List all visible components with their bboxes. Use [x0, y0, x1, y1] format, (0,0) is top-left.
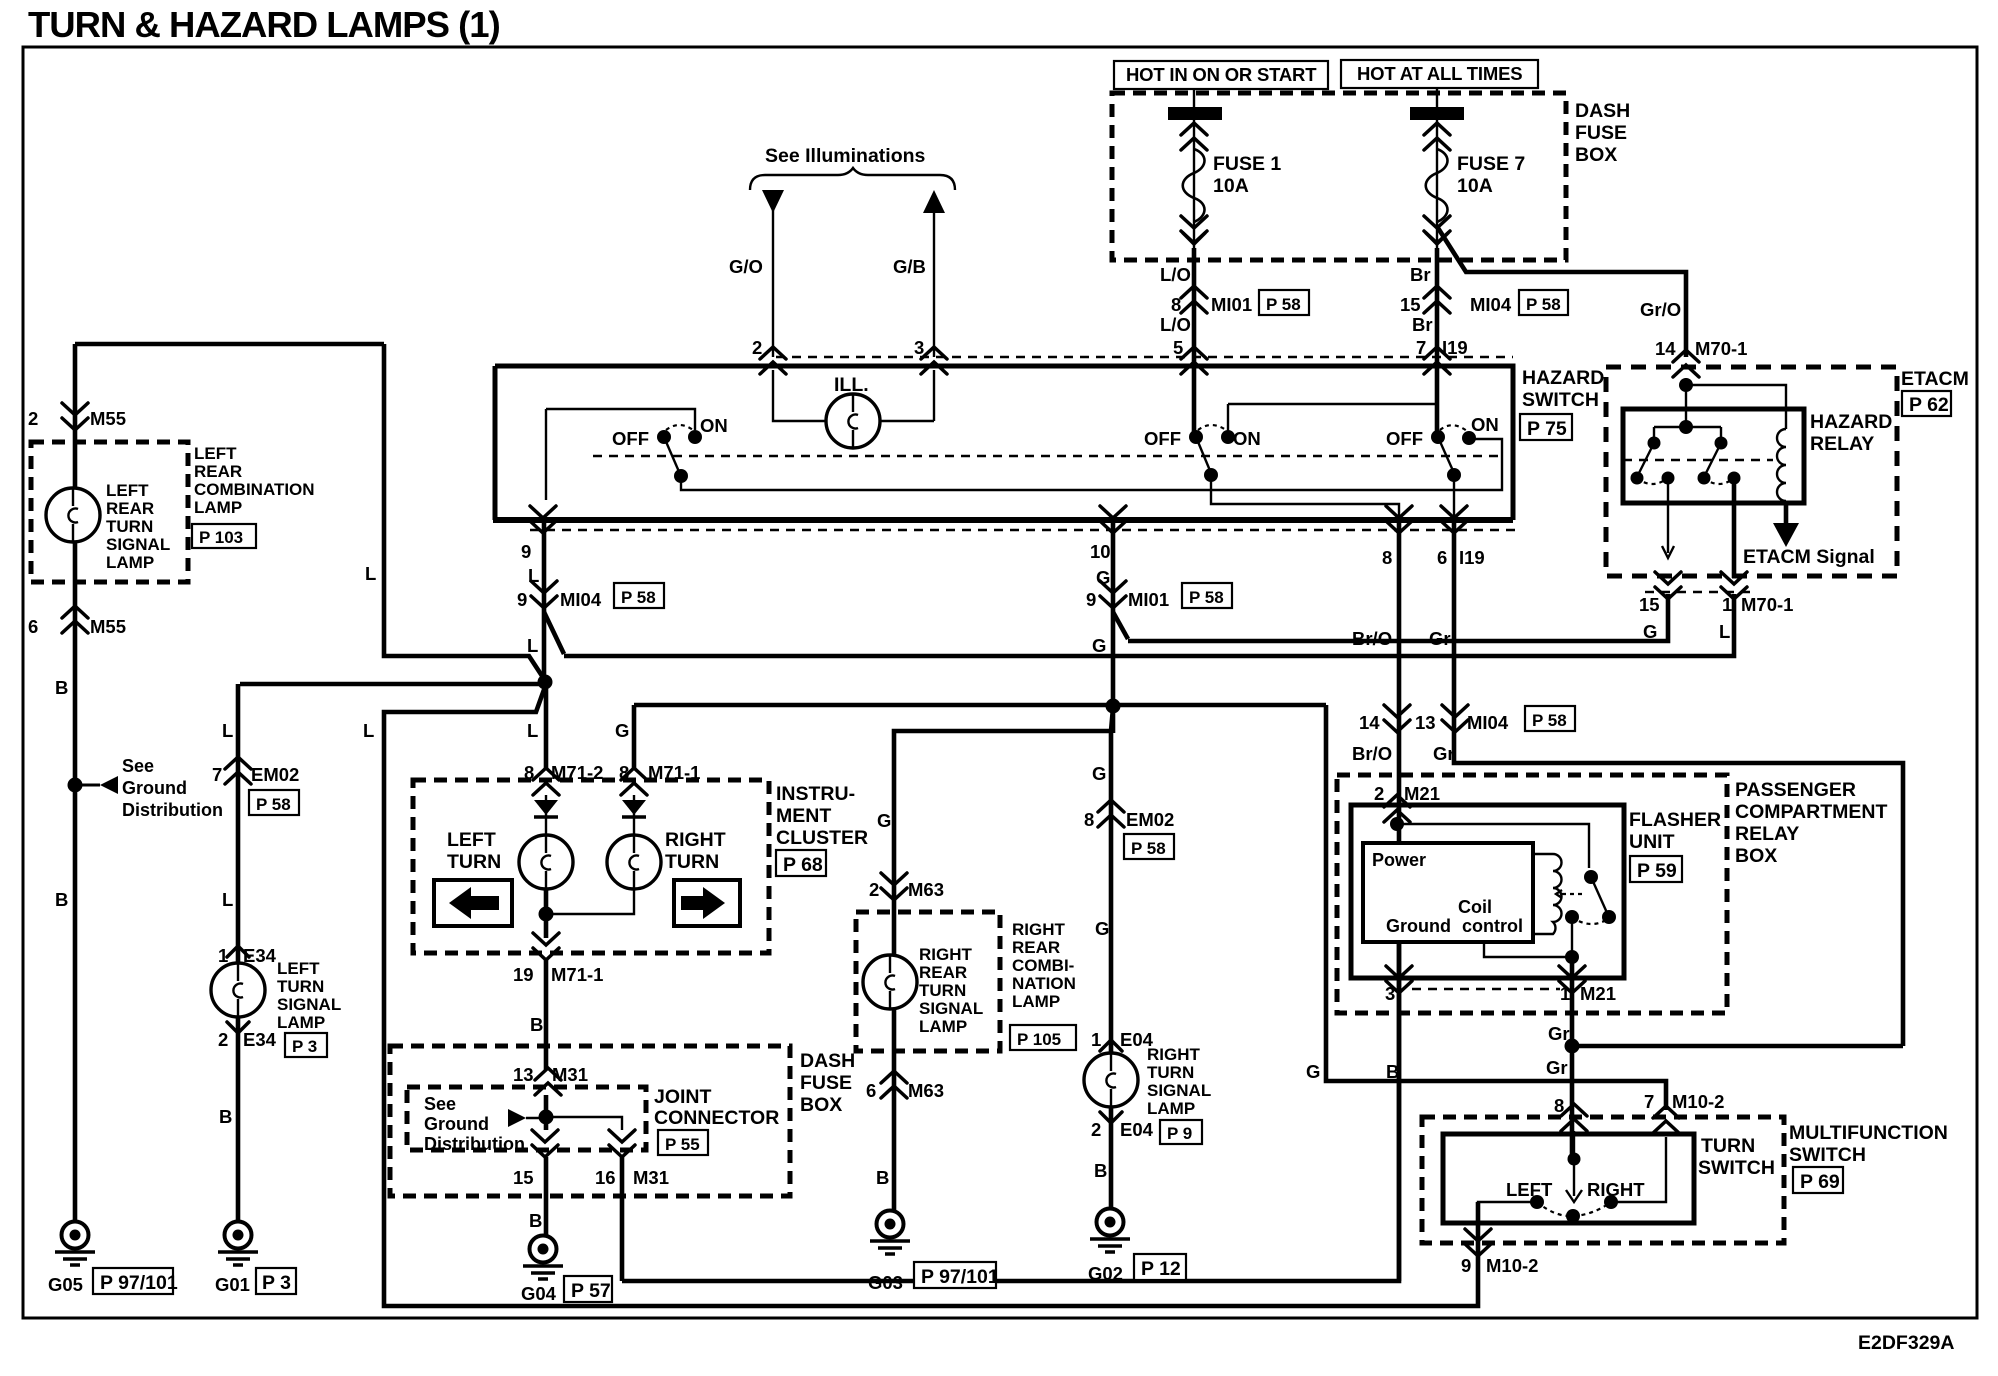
- svg-text:G05: G05: [48, 1274, 83, 1295]
- svg-text:G: G: [1092, 763, 1106, 784]
- svg-text:SIGNAL: SIGNAL: [277, 995, 341, 1014]
- svg-text:G03: G03: [868, 1272, 903, 1293]
- svg-text:TURN: TURN: [277, 977, 324, 996]
- svg-text:10A: 10A: [1457, 175, 1493, 197]
- svg-text:COMBI-: COMBI-: [1012, 956, 1074, 975]
- svg-text:16: 16: [595, 1167, 616, 1188]
- svg-text:G: G: [1095, 918, 1109, 939]
- svg-text:1: 1: [1722, 594, 1732, 615]
- svg-text:Ground: Ground: [424, 1114, 489, 1134]
- svg-text:M63: M63: [908, 879, 944, 900]
- svg-text:M55: M55: [90, 616, 126, 637]
- svg-text:FLASHER: FLASHER: [1629, 809, 1721, 831]
- svg-text:HAZARD: HAZARD: [1522, 367, 1604, 389]
- svg-text:SWITCH: SWITCH: [1789, 1144, 1866, 1166]
- svg-text:FUSE: FUSE: [800, 1072, 852, 1094]
- svg-text:L/O: L/O: [1160, 264, 1191, 285]
- svg-text:See: See: [424, 1094, 456, 1114]
- svg-text:LAMP: LAMP: [106, 553, 154, 572]
- svg-text:MI04: MI04: [1467, 712, 1509, 733]
- svg-text:NATION: NATION: [1012, 974, 1076, 993]
- svg-text:1: 1: [1560, 983, 1570, 1004]
- svg-text:M21: M21: [1404, 783, 1440, 804]
- svg-text:P 97/101: P 97/101: [921, 1266, 999, 1288]
- svg-text:See Illuminations: See Illuminations: [765, 145, 926, 167]
- svg-text:14: 14: [1655, 338, 1676, 359]
- svg-text:HOT IN ON OR START: HOT IN ON OR START: [1126, 64, 1317, 85]
- svg-text:B: B: [55, 677, 68, 698]
- svg-text:10A: 10A: [1213, 175, 1249, 197]
- svg-text:P 68: P 68: [783, 854, 823, 876]
- svg-text:1: 1: [218, 945, 228, 966]
- svg-text:P 3: P 3: [292, 1037, 317, 1056]
- svg-text:L: L: [1719, 621, 1730, 642]
- svg-text:B: B: [219, 1106, 232, 1127]
- svg-text:8: 8: [1171, 294, 1181, 315]
- svg-text:Br/O: Br/O: [1352, 628, 1392, 649]
- svg-text:PASSENGER: PASSENGER: [1735, 779, 1856, 801]
- svg-text:8: 8: [619, 762, 629, 783]
- svg-text:3: 3: [1385, 983, 1395, 1004]
- svg-text:L: L: [527, 720, 538, 741]
- svg-text:TURN: TURN: [1147, 1063, 1194, 1082]
- svg-text:EM02: EM02: [251, 764, 299, 785]
- svg-text:P 103: P 103: [199, 528, 243, 547]
- svg-text:2: 2: [752, 337, 762, 358]
- svg-text:M70-1: M70-1: [1695, 338, 1747, 359]
- svg-text:8: 8: [524, 762, 534, 783]
- svg-text:CONNECTOR: CONNECTOR: [654, 1107, 779, 1129]
- svg-text:ETACM: ETACM: [1901, 368, 1969, 390]
- svg-text:LEFT: LEFT: [277, 959, 320, 978]
- svg-text:RIGHT: RIGHT: [1587, 1179, 1645, 1200]
- svg-text:FUSE 1: FUSE 1: [1213, 153, 1281, 175]
- svg-text:INSTRU-: INSTRU-: [776, 783, 855, 805]
- svg-text:FUSE: FUSE: [1575, 122, 1627, 144]
- svg-text:LEFT: LEFT: [447, 829, 496, 851]
- svg-text:P 58: P 58: [621, 588, 656, 607]
- svg-text:13: 13: [513, 1064, 534, 1085]
- svg-text:2: 2: [218, 1029, 228, 1050]
- svg-text:M63: M63: [908, 1080, 944, 1101]
- svg-text:REAR: REAR: [1012, 938, 1060, 957]
- svg-text:DASH: DASH: [1575, 100, 1630, 122]
- svg-text:Br: Br: [1410, 264, 1431, 285]
- svg-text:P 3: P 3: [262, 1272, 291, 1294]
- svg-text:LAMP: LAMP: [194, 498, 242, 517]
- svg-text:M31: M31: [552, 1064, 588, 1085]
- svg-text:Distribution: Distribution: [122, 800, 223, 820]
- svg-text:P 58: P 58: [256, 795, 291, 814]
- svg-text:RIGHT: RIGHT: [665, 829, 726, 851]
- svg-text:LEFT: LEFT: [194, 444, 237, 463]
- svg-text:P 59: P 59: [1637, 860, 1677, 882]
- svg-text:15: 15: [1639, 594, 1660, 615]
- svg-text:P 58: P 58: [1532, 711, 1567, 730]
- svg-text:L: L: [222, 720, 233, 741]
- svg-text:Coil: Coil: [1458, 897, 1492, 917]
- svg-text:P 55: P 55: [665, 1135, 700, 1154]
- svg-text:HAZARD: HAZARD: [1810, 411, 1892, 433]
- svg-text:Gr/O: Gr/O: [1640, 299, 1681, 320]
- svg-text:G/O: G/O: [729, 256, 763, 277]
- svg-text:CLUSTER: CLUSTER: [776, 827, 868, 849]
- svg-text:LAMP: LAMP: [1147, 1099, 1195, 1118]
- svg-text:ON: ON: [1233, 428, 1261, 449]
- svg-text:LAMP: LAMP: [1012, 992, 1060, 1011]
- svg-text:OFF: OFF: [612, 428, 649, 449]
- svg-text:M21: M21: [1580, 983, 1616, 1004]
- svg-text:RELAY: RELAY: [1735, 823, 1799, 845]
- svg-text:BOX: BOX: [1575, 144, 1617, 166]
- svg-text:OFF: OFF: [1144, 428, 1181, 449]
- svg-text:LAMP: LAMP: [277, 1013, 325, 1032]
- svg-text:Br: Br: [1412, 314, 1433, 335]
- svg-text:G: G: [1092, 635, 1106, 656]
- svg-text:Ground: Ground: [1386, 916, 1451, 936]
- svg-text:19: 19: [513, 964, 534, 985]
- svg-text:BOX: BOX: [1735, 845, 1777, 867]
- svg-text:9: 9: [1461, 1255, 1471, 1276]
- svg-text:13: 13: [1415, 712, 1436, 733]
- svg-text:TURN & HAZARD LAMPS (1): TURN & HAZARD LAMPS (1): [28, 4, 500, 45]
- svg-text:15: 15: [1400, 294, 1421, 315]
- svg-text:P 58: P 58: [1526, 295, 1561, 314]
- svg-text:MULTIFUNCTION: MULTIFUNCTION: [1789, 1122, 1948, 1144]
- svg-text:P 9: P 9: [1167, 1124, 1192, 1143]
- svg-text:M10-2: M10-2: [1672, 1091, 1724, 1112]
- svg-text:ETACM Signal: ETACM Signal: [1743, 546, 1875, 568]
- svg-text:SIGNAL: SIGNAL: [106, 535, 170, 554]
- svg-text:7: 7: [1416, 337, 1426, 358]
- svg-text:FUSE 7: FUSE 7: [1457, 153, 1525, 175]
- svg-text:G: G: [1306, 1061, 1320, 1082]
- svg-text:8: 8: [1554, 1095, 1564, 1116]
- svg-text:G/B: G/B: [893, 256, 926, 277]
- svg-text:5: 5: [1173, 337, 1183, 358]
- svg-text:M31: M31: [633, 1167, 669, 1188]
- svg-text:B: B: [55, 889, 68, 910]
- svg-text:G04: G04: [521, 1283, 557, 1304]
- svg-text:ILL.: ILL.: [834, 374, 869, 396]
- svg-text:7: 7: [1644, 1091, 1654, 1112]
- svg-text:LAMP: LAMP: [919, 1017, 967, 1036]
- svg-text:7: 7: [212, 764, 222, 785]
- svg-text:14: 14: [1359, 712, 1380, 733]
- svg-text:MI04: MI04: [1470, 294, 1512, 315]
- svg-text:Gr: Gr: [1433, 743, 1455, 764]
- svg-text:15: 15: [513, 1167, 534, 1188]
- svg-text:HOT AT ALL TIMES: HOT AT ALL TIMES: [1357, 63, 1522, 84]
- svg-text:BOX: BOX: [800, 1094, 842, 1116]
- svg-text:ON: ON: [1471, 414, 1499, 435]
- svg-text:G01: G01: [215, 1274, 250, 1295]
- svg-text:10: 10: [1090, 541, 1111, 562]
- svg-text:RIGHT: RIGHT: [1012, 920, 1066, 939]
- svg-text:E34: E34: [243, 1029, 277, 1050]
- svg-text:3: 3: [914, 337, 924, 358]
- svg-text:MI01: MI01: [1128, 589, 1169, 610]
- svg-text:8: 8: [1084, 809, 1094, 830]
- svg-text:SWITCH: SWITCH: [1522, 389, 1599, 411]
- svg-text:I19: I19: [1459, 547, 1485, 568]
- svg-text:2: 2: [869, 879, 879, 900]
- svg-text:2: 2: [28, 408, 38, 429]
- svg-text:Power: Power: [1372, 850, 1426, 870]
- svg-text:TURN: TURN: [1701, 1135, 1755, 1157]
- svg-text:MI01: MI01: [1211, 294, 1252, 315]
- svg-text:B: B: [1094, 1160, 1107, 1181]
- svg-text:9: 9: [1086, 589, 1096, 610]
- svg-text:G: G: [877, 810, 891, 831]
- svg-text:B: B: [876, 1167, 889, 1188]
- svg-text:1: 1: [1091, 1029, 1101, 1050]
- svg-text:EM02: EM02: [1126, 809, 1174, 830]
- svg-text:E04: E04: [1120, 1119, 1154, 1140]
- svg-text:COMBINATION: COMBINATION: [194, 480, 315, 499]
- svg-text:OFF: OFF: [1386, 428, 1423, 449]
- svg-text:9: 9: [517, 589, 527, 610]
- svg-text:Br/O: Br/O: [1352, 743, 1392, 764]
- svg-text:9: 9: [521, 541, 531, 562]
- svg-text:P 105: P 105: [1017, 1030, 1061, 1049]
- svg-text:G: G: [615, 720, 629, 741]
- svg-text:REAR: REAR: [106, 499, 154, 518]
- svg-text:P 58: P 58: [1189, 588, 1224, 607]
- svg-text:COMPARTMENT: COMPARTMENT: [1735, 801, 1887, 823]
- svg-text:UNIT: UNIT: [1629, 831, 1675, 853]
- svg-text:SWITCH: SWITCH: [1698, 1157, 1775, 1179]
- svg-text:M55: M55: [90, 408, 126, 429]
- svg-text:L: L: [527, 635, 538, 656]
- svg-text:SIGNAL: SIGNAL: [919, 999, 983, 1018]
- svg-text:TURN: TURN: [665, 851, 719, 873]
- svg-text:B: B: [529, 1210, 542, 1231]
- svg-text:M71-1: M71-1: [648, 762, 700, 783]
- svg-text:2: 2: [1374, 783, 1384, 804]
- svg-text:8: 8: [1382, 547, 1392, 568]
- svg-text:Gr: Gr: [1429, 628, 1451, 649]
- svg-text:P 12: P 12: [1141, 1258, 1181, 1280]
- svg-text:L: L: [365, 563, 376, 584]
- svg-text:G02: G02: [1088, 1263, 1123, 1284]
- svg-text:M10-2: M10-2: [1486, 1255, 1538, 1276]
- svg-text:P 69: P 69: [1800, 1171, 1840, 1193]
- svg-text:P 58: P 58: [1266, 295, 1301, 314]
- svg-text:G: G: [1643, 621, 1657, 642]
- svg-text:control: control: [1462, 916, 1523, 936]
- svg-text:6: 6: [28, 616, 38, 637]
- svg-text:Gr: Gr: [1548, 1023, 1570, 1044]
- svg-text:M71-2: M71-2: [551, 762, 603, 783]
- svg-text:L: L: [222, 889, 233, 910]
- svg-text:RIGHT: RIGHT: [919, 945, 973, 964]
- svg-text:SIGNAL: SIGNAL: [1147, 1081, 1211, 1100]
- svg-text:2: 2: [1091, 1119, 1101, 1140]
- svg-text:REAR: REAR: [194, 462, 242, 481]
- svg-text:L/O: L/O: [1160, 314, 1191, 335]
- svg-text:Ground: Ground: [122, 778, 187, 798]
- svg-text:REAR: REAR: [919, 963, 967, 982]
- svg-text:6: 6: [866, 1080, 876, 1101]
- svg-text:See: See: [122, 756, 154, 776]
- svg-text:TURN: TURN: [919, 981, 966, 1000]
- svg-text:Distribution: Distribution: [424, 1134, 525, 1154]
- svg-text:TURN: TURN: [447, 851, 501, 873]
- svg-text:P 97/101: P 97/101: [100, 1272, 178, 1294]
- svg-text:DASH: DASH: [800, 1050, 855, 1072]
- svg-text:P 75: P 75: [1527, 418, 1567, 440]
- svg-text:LEFT: LEFT: [1506, 1179, 1553, 1200]
- svg-text:JOINT: JOINT: [654, 1086, 712, 1108]
- svg-text:RIGHT: RIGHT: [1147, 1045, 1201, 1064]
- svg-text:RELAY: RELAY: [1810, 433, 1874, 455]
- svg-text:P 62: P 62: [1909, 394, 1949, 416]
- svg-text:6: 6: [1437, 547, 1447, 568]
- svg-text:TURN: TURN: [106, 517, 153, 536]
- svg-text:P 58: P 58: [1131, 839, 1166, 858]
- svg-text:ON: ON: [700, 415, 728, 436]
- svg-text:MENT: MENT: [776, 805, 831, 827]
- svg-text:E34: E34: [243, 945, 277, 966]
- svg-text:L: L: [363, 720, 374, 741]
- svg-text:Gr: Gr: [1546, 1057, 1568, 1078]
- svg-text:B: B: [530, 1014, 543, 1035]
- svg-text:M71-1: M71-1: [551, 964, 603, 985]
- svg-text:E2DF329A: E2DF329A: [1858, 1332, 1954, 1354]
- svg-text:LEFT: LEFT: [106, 481, 149, 500]
- svg-text:P 57: P 57: [571, 1280, 611, 1302]
- svg-text:M70-1: M70-1: [1741, 594, 1793, 615]
- svg-text:MI04: MI04: [560, 589, 602, 610]
